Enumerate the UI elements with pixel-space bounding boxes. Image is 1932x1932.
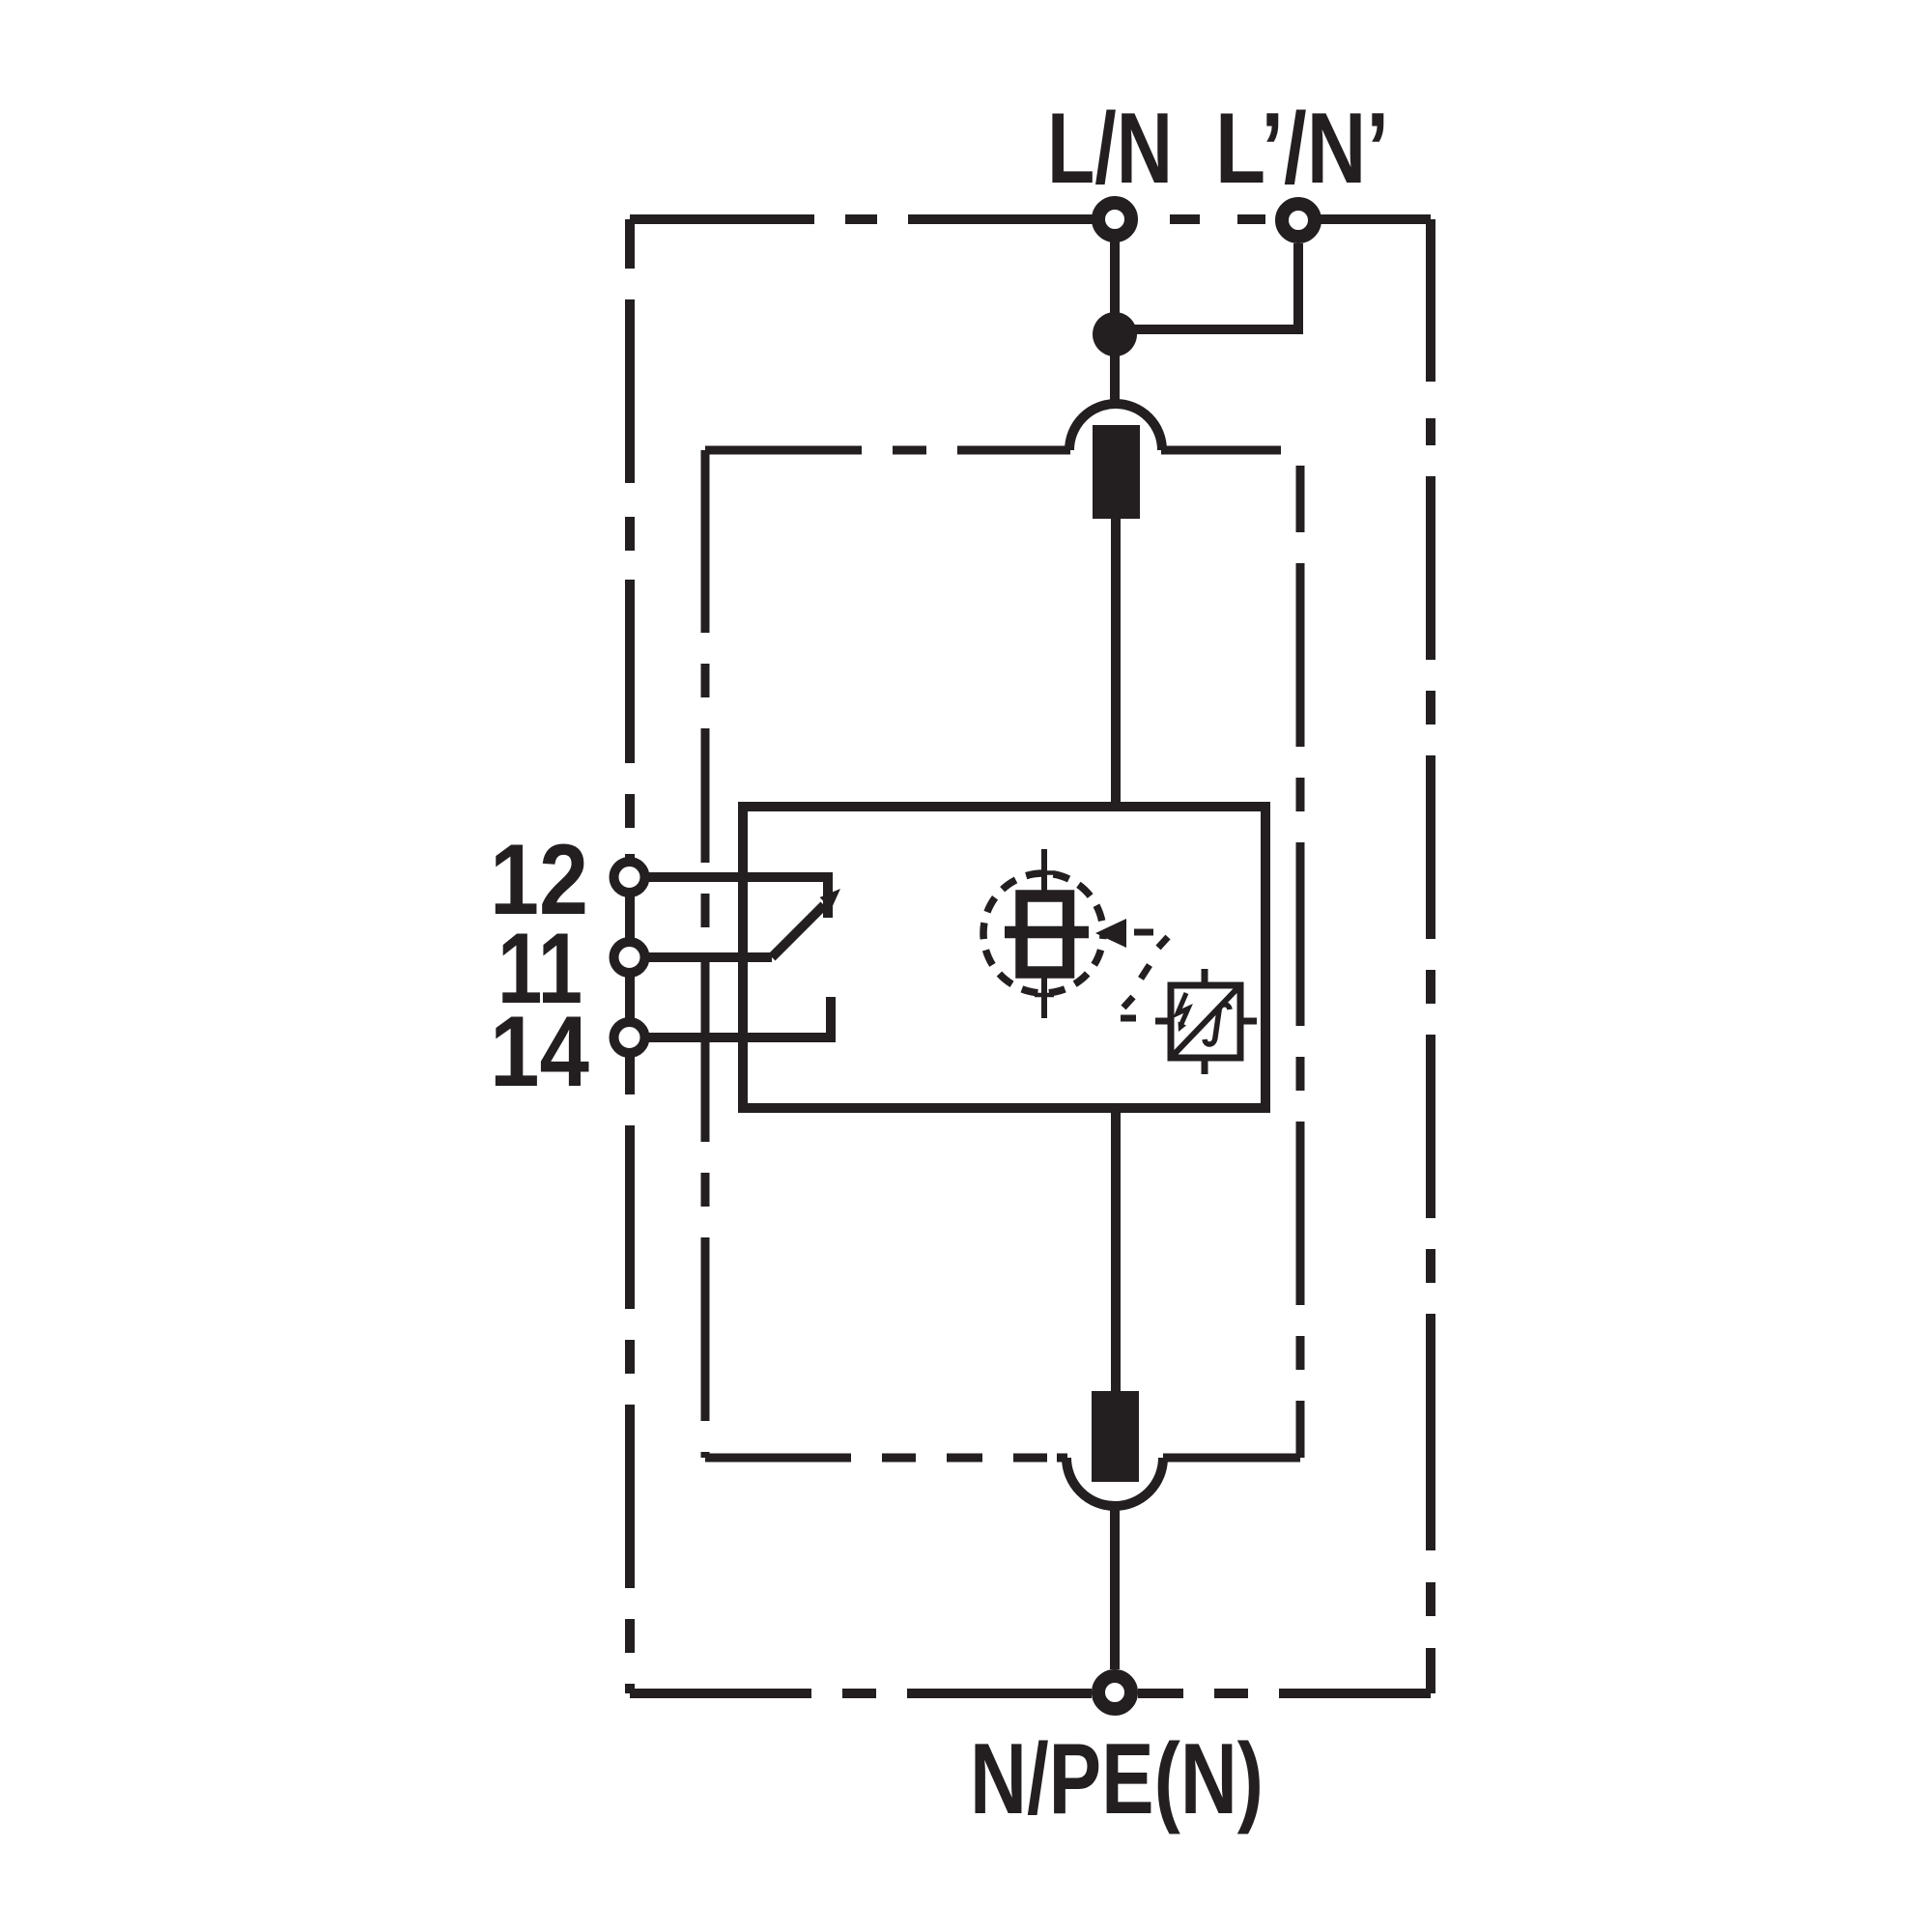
contact arm [772,905,824,957]
varistor bottom lead tick [1035,993,1054,998]
symbol left stub [1155,1018,1171,1025]
contact arm arrowhead [820,889,841,909]
varistor element with monitoring (dashed circle) [983,849,1103,1018]
svg-text:L’/N’: L’/N’ [1215,93,1389,205]
wire disconnector to SPD module [1111,519,1121,807]
wire from terminal L/N down to disconnector [1110,236,1120,404]
svg-text:L/N: L/N [1047,93,1173,205]
symbol diagonal [1171,985,1240,1058]
monitoring dashed circle [983,873,1103,993]
wire from terminal L'/N' down and junction link [1115,243,1298,334]
remote signalling changeover contact [630,877,831,1037]
symbol right stub [1240,1018,1257,1025]
terminal 14 [614,1022,645,1053]
thermal disconnecting device (top): dome arc [1069,404,1162,450]
SPD module box [743,807,1265,1108]
thermal disconnecting device (bottom): contact block [1092,1391,1139,1482]
symbol bottom stub [1202,1058,1208,1074]
varistor top lead tick [1035,870,1054,875]
wire SPD module to bottom disconnector [1111,1108,1121,1391]
integral sign [1205,1005,1230,1044]
lightning bolt [1178,993,1188,1024]
svg-text:N/PE(N): N/PE(N) [970,1723,1264,1835]
terminal 12 [614,862,645,893]
terminal 11 [614,942,645,973]
terminal L/N [1098,203,1131,236]
wire contact 12 with end hook [630,877,828,918]
symbol box [1171,985,1240,1058]
thermal disconnecting device (top): contact block [1093,425,1140,519]
wire bottom disconnector to terminal N/PE(N) [1110,1506,1120,1669]
combined surge/filter symbol (box with bolt and integral) [1155,969,1257,1074]
disconnection indicator arrow [1095,919,1126,948]
varistor body frame [1022,896,1069,973]
varistor top lead [1041,849,1047,891]
dashed link from arrow to signalling [1121,932,1168,1018]
svg-text:14: 14 [490,996,589,1108]
terminal L'/N' [1282,204,1315,237]
terminal N/PE(N) [1098,1676,1131,1709]
varistor bottom lead [1041,978,1047,1018]
thermal disconnecting device (bottom): bowl arc [1066,1458,1163,1506]
symbol top stub [1202,969,1208,985]
varistor middle electrode bar [1005,926,1089,939]
junction node [1093,312,1137,356]
wire contact 11 (common) [630,952,772,962]
lightning bolt arrowhead [1179,1022,1187,1033]
outer device enclosure (dash-dot frame) [630,219,1431,1693]
wire contact 14 [630,997,831,1037]
inner monitoring enclosure (dash-dot frame) [705,450,1300,1458]
